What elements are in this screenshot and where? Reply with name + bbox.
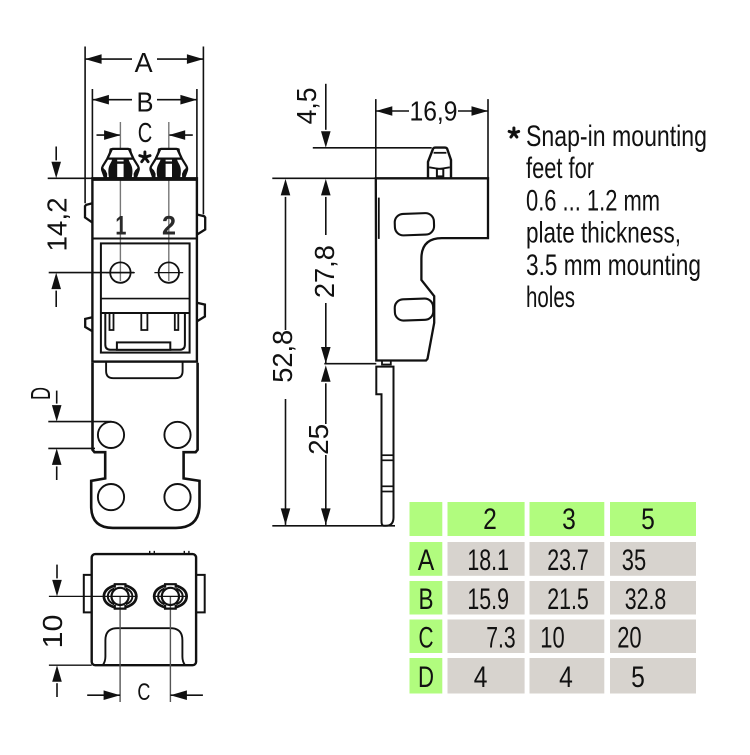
svg-text:holes: holes	[526, 281, 575, 314]
side hook left lower	[85, 317, 92, 331]
svg-text:C: C	[419, 621, 434, 654]
inner box	[101, 243, 190, 352]
leader line through foot 2 and hole 2	[168, 122, 170, 281]
leader line foot B (bottom view)	[169, 596, 171, 702]
dimension 16,9	[376, 96, 488, 179]
svg-text:14,2: 14,2	[42, 198, 73, 252]
plate hole bottom-right	[164, 484, 190, 510]
dimension 14,2 (left)	[42, 147, 135, 308]
svg-text:18.1: 18.1	[467, 544, 509, 577]
plate hole bottom-left	[98, 484, 124, 510]
leader line foot A (bottom view)	[119, 596, 121, 702]
screw hole 2	[154, 262, 183, 282]
bottom view right tab	[196, 575, 205, 613]
svg-text:5: 5	[641, 503, 655, 536]
slot 1	[394, 213, 434, 236]
svg-text:20: 20	[617, 621, 641, 654]
side view foot	[428, 148, 451, 178]
svg-text:feet for: feet for	[526, 152, 594, 185]
plate hole top-left	[98, 422, 124, 448]
svg-text:5: 5	[631, 661, 645, 694]
svg-text:C: C	[138, 117, 153, 148]
bottom view left tab	[84, 575, 92, 613]
svg-text:D: D	[418, 661, 434, 694]
dimension 25	[303, 365, 334, 525]
side view body outline	[376, 178, 488, 360]
svg-text:2: 2	[162, 211, 176, 241]
divider line	[101, 298, 190, 300]
latch assembly	[101, 313, 190, 353]
line under 1-2 box	[92, 238, 196, 240]
leader line through foot 1 and hole 1	[119, 122, 121, 281]
side hook right upper	[197, 215, 205, 235]
svg-text:32.8: 32.8	[625, 583, 667, 616]
svg-text:16,9: 16,9	[410, 96, 458, 127]
svg-text:52,8: 52,8	[267, 330, 298, 383]
svg-text:4: 4	[474, 661, 488, 694]
svg-text:7.3: 7.3	[486, 621, 515, 654]
dimension C (top)	[97, 117, 193, 148]
asterisk between feet	[140, 152, 150, 162]
seam line near left edge	[378, 198, 380, 239]
svg-text:1: 1	[115, 211, 126, 241]
svg-text:2: 2	[483, 503, 497, 536]
plate hole top-right	[164, 422, 190, 448]
svg-text:25: 25	[303, 424, 334, 455]
svg-text:27,8: 27,8	[309, 245, 340, 298]
svg-text:21.5: 21.5	[547, 583, 589, 616]
svg-text:3: 3	[562, 503, 576, 536]
screw hole 1	[106, 262, 135, 282]
svg-text:A: A	[135, 47, 153, 78]
lower strip (side view)	[376, 361, 393, 526]
front view body outline	[92, 178, 196, 361]
svg-text:B: B	[137, 86, 154, 117]
dimension 27,8	[309, 179, 376, 364]
front view: snap-in feet	[102, 149, 139, 179]
dimension 4,5	[291, 84, 432, 148]
bottom view inner recess	[103, 628, 185, 665]
svg-text:0.6 ... 1.2 mm: 0.6 ... 1.2 mm	[526, 184, 660, 217]
dimension C (bottom)	[87, 679, 203, 706]
svg-text:A: A	[418, 544, 435, 577]
dimension A (top)	[85, 47, 203, 215]
svg-text:C: C	[137, 679, 150, 706]
note asterisk	[509, 128, 519, 137]
svg-text:plate thickness,: plate thickness,	[526, 217, 681, 250]
mould tick marks on top edge	[150, 551, 155, 554]
dimension 10 (bottom view)	[37, 565, 103, 697]
side hook left upper	[85, 203, 92, 222]
side hook right lower	[197, 303, 205, 322]
svg-text:23.7: 23.7	[547, 544, 589, 577]
dimension B	[92, 86, 196, 178]
svg-text:35: 35	[622, 544, 646, 577]
svg-text:Snap-in mounting: Snap-in mounting	[526, 120, 707, 153]
dimension 52,8	[267, 178, 395, 526]
svg-text:B: B	[419, 583, 434, 616]
svg-text:10: 10	[37, 615, 68, 649]
svg-text:10: 10	[540, 621, 564, 654]
bottom view box	[92, 554, 196, 665]
dimension D	[25, 387, 112, 480]
svg-text:4,5: 4,5	[291, 87, 322, 124]
bottom view screw feet	[103, 584, 138, 608]
svg-text:3.5 mm mounting: 3.5 mm mounting	[526, 249, 701, 282]
slot 2	[394, 298, 433, 321]
plate top tab	[106, 362, 183, 378]
table	[410, 502, 697, 694]
svg-text:15.9: 15.9	[467, 583, 509, 616]
svg-text:D: D	[25, 387, 56, 400]
mounting plate outline	[91, 363, 199, 528]
svg-text:4: 4	[559, 661, 573, 694]
